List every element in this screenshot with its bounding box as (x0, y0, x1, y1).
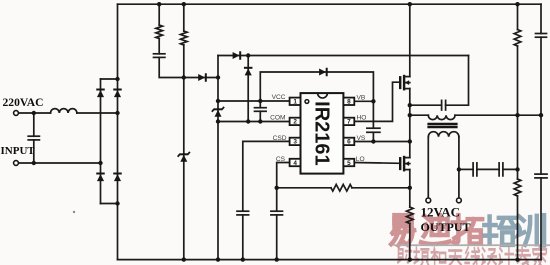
svg-text:VCC: VCC (272, 94, 286, 101)
svg-text:5: 5 (347, 160, 351, 167)
svg-text:CS: CS (276, 156, 286, 163)
svg-text:1: 1 (293, 99, 297, 106)
svg-text:COM: COM (270, 115, 285, 122)
svg-text:VS: VS (357, 135, 366, 142)
svg-text:IR2161: IR2161 (311, 101, 333, 166)
svg-text:CSD: CSD (273, 135, 287, 142)
svg-text:2: 2 (293, 119, 297, 126)
svg-text:INPUT: INPUT (1, 145, 36, 157)
svg-text:12VAC: 12VAC (421, 205, 461, 220)
svg-text:3: 3 (293, 139, 297, 146)
svg-text:4: 4 (293, 160, 297, 167)
svg-text:VB: VB (357, 94, 366, 101)
svg-text:220VAC: 220VAC (3, 96, 44, 109)
svg-text:7: 7 (347, 119, 351, 126)
svg-text:6: 6 (347, 139, 351, 146)
svg-text:OUTPUT: OUTPUT (421, 220, 471, 234)
svg-text:HO: HO (357, 115, 367, 122)
svg-text:LO: LO (356, 156, 365, 163)
svg-text:8: 8 (347, 99, 351, 106)
